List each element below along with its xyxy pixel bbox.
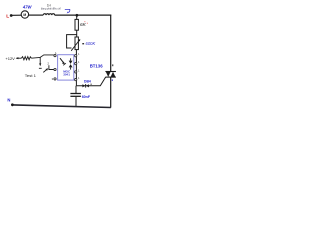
diac DB4 (82, 84, 85, 87)
triac Q1 bottom bar (105, 76, 116, 78)
tick after diac (91, 84, 92, 85)
U1 internal LED (60, 58, 64, 63)
capacitor C1 bottom lead (75, 97, 77, 107)
U1 pin 3 circle (54, 78, 56, 80)
triac Q1 triangles (106, 72, 111, 77)
svg-text:+12V: +12V (5, 56, 15, 61)
wire junction to resistor 6K (76, 15, 78, 19)
svg-text:600K: 600K (86, 41, 96, 46)
U1 pin 4 circle (75, 71, 77, 73)
wire zigzag to node (31, 56, 40, 59)
triac gate diagonal (100, 77, 105, 86)
wire L to motor (12, 14, 21, 16)
junction node top (dot) (76, 14, 79, 17)
U1 pin 2 circle (54, 68, 56, 70)
U1 pin 6 circle (75, 55, 77, 57)
potentiometer 600K body (75, 37, 78, 50)
test point down arrow (39, 57, 41, 64)
node L terminal dot (10, 14, 13, 17)
capacitor C1 top plate (70, 93, 81, 95)
svg-text:1H: 1H (47, 3, 52, 7)
node junction Y (40, 55, 54, 58)
svg-text:47W: 47W (22, 4, 33, 9)
U1 internal triac (69, 61, 73, 64)
wire motor to inductor (29, 14, 44, 16)
svg-text:N: N (7, 98, 10, 103)
motor M1 circle (21, 11, 28, 18)
svg-text:60nF: 60nF (82, 95, 91, 99)
wire pot bottom / right bus down to gate wire (75, 50, 77, 86)
current direction arrow (blue) (65, 9, 70, 13)
node N terminal dot (11, 103, 14, 106)
inductor L1 (43, 14, 54, 15)
svg-text:M: M (23, 13, 26, 17)
arrow pointing to +12V (16, 57, 21, 59)
wire 6K to potentiometer (76, 30, 78, 37)
wire triac down to bottom rail (110, 77, 112, 108)
capacitor C1 top lead (75, 86, 77, 93)
wire inductor to right corner (55, 14, 112, 16)
svg-text:3041: 3041 (63, 73, 70, 77)
pin 2 wire L-shape (49, 65, 54, 69)
potentiometer wiper arrow (71, 40, 79, 51)
svg-text:L: L (6, 13, 9, 19)
U1 pin 5 circle (75, 63, 77, 65)
triac Q1 top bar (105, 71, 116, 73)
tick right of wire above triac (112, 64, 113, 66)
wire top corner down to triac (110, 15, 112, 72)
svg-text:DB4: DB4 (84, 80, 91, 84)
resistor 6K body (75, 19, 78, 30)
capacitor C1 bottom plate (70, 95, 81, 97)
U1 pin 4b circle (75, 79, 77, 81)
opto-triac U1 box (MOC) (58, 55, 74, 80)
bottom rail wire N to right corner (14, 105, 111, 108)
test point dash (39, 67, 42, 69)
U1 pin 1 circle (54, 55, 56, 57)
svg-text:BT136: BT136 (90, 64, 104, 69)
rheostat loop wire (67, 35, 77, 48)
svg-text:đang phải điều chỉ: đang phải điều chỉ (41, 8, 61, 11)
gate wire to diac (76, 85, 100, 87)
triac terminal tick (blue) (112, 79, 113, 81)
resistor zigzag from +12V (21, 57, 31, 60)
arrow from Test 1 to pin 2 (43, 69, 47, 72)
wiper tick mark (82, 43, 84, 44)
svg-text:Test 1: Test 1 (25, 74, 36, 78)
